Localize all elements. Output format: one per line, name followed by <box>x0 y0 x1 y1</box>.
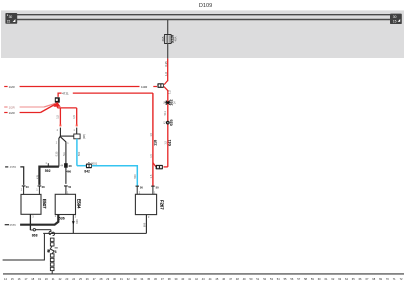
svg-text:69: 69 <box>379 277 382 281</box>
svg-text:1,5: 1,5 <box>72 115 76 119</box>
svg-text:64: 64 <box>345 277 348 281</box>
svg-text:0,35: 0,35 <box>55 151 58 156</box>
svg-text:2: 2 <box>21 188 23 192</box>
svg-text:29: 29 <box>106 277 109 281</box>
wire branch A black <box>59 128 61 137</box>
svg-text:56: 56 <box>290 277 293 281</box>
svg-text:47: 47 <box>229 277 232 281</box>
svg-text:0,35: 0,35 <box>164 61 168 67</box>
bus band <box>1 10 404 58</box>
svg-text:3: 3 <box>75 214 77 218</box>
wire stub3 <box>4 104 55 115</box>
svg-text:33: 33 <box>134 277 137 281</box>
svg-text:40: 40 <box>181 277 184 281</box>
svg-text:8: 8 <box>55 250 57 254</box>
svg-text:16: 16 <box>18 277 21 281</box>
wire cyan horizontal 2 <box>92 166 137 187</box>
svg-text:25: 25 <box>79 277 82 281</box>
svg-text:52: 52 <box>263 277 266 281</box>
wire junction line <box>43 232 146 234</box>
svg-text:40A: 40A <box>161 36 165 41</box>
svg-text:641: 641 <box>168 140 172 146</box>
svg-text:15: 15 <box>11 277 14 281</box>
svg-text:2: 2 <box>56 141 58 144</box>
svg-text:592: 592 <box>45 169 51 173</box>
svg-text:14: 14 <box>4 277 7 281</box>
svg-text:E594: E594 <box>77 199 82 209</box>
box E507 <box>21 194 47 214</box>
wire pin stubs into boxes <box>24 186 153 194</box>
svg-text:3: 3 <box>148 215 150 219</box>
svg-text:19: 19 <box>38 277 41 281</box>
svg-text:62: 62 <box>331 277 334 281</box>
svg-text:1I2R: 1I2R <box>9 111 15 115</box>
svg-text:24: 24 <box>72 277 75 281</box>
svg-text:1,5: 1,5 <box>163 140 167 144</box>
track numbers <box>4 277 403 281</box>
box E594 <box>55 194 81 214</box>
svg-text:50: 50 <box>250 277 253 281</box>
svg-text:511: 511 <box>163 111 167 116</box>
svg-text:48: 48 <box>236 277 239 281</box>
svg-text:28: 28 <box>100 277 103 281</box>
junction splice J <box>55 97 60 103</box>
svg-text:26: 26 <box>86 277 89 281</box>
svg-text:1,5: 1,5 <box>149 174 153 178</box>
svg-text:F267: F267 <box>160 200 165 210</box>
svg-text:72: 72 <box>400 277 403 281</box>
svg-text:(98): (98) <box>82 134 86 139</box>
svg-text:1,5: 1,5 <box>56 115 60 119</box>
svg-text:22: 22 <box>59 277 62 281</box>
wire bus 30 <box>17 14 390 16</box>
wire 4555 top <box>5 165 24 185</box>
svg-text:42: 42 <box>164 121 167 124</box>
wire red drop <box>167 59 169 82</box>
svg-text:59: 59 <box>311 277 314 281</box>
svg-text:30: 30 <box>9 15 13 19</box>
wire red left vertical <box>152 93 154 186</box>
svg-text:1I2R: 1I2R <box>141 85 148 89</box>
svg-text:15: 15 <box>7 20 11 24</box>
svg-text:50: 50 <box>68 185 71 189</box>
svg-text:2: 2 <box>55 215 57 218</box>
svg-text:65: 65 <box>352 277 355 281</box>
svg-text:28: 28 <box>42 185 45 189</box>
svg-text:66: 66 <box>359 277 362 281</box>
svg-text:4555: 4555 <box>10 223 17 227</box>
wire boxF bottom <box>142 215 150 234</box>
fuse S228 40A <box>161 35 178 44</box>
svg-text:49: 49 <box>243 277 246 281</box>
connector K2 <box>153 163 168 170</box>
svg-text:1,0: 1,0 <box>164 72 168 76</box>
svg-text:D109: D109 <box>199 3 212 9</box>
svg-text:23: 23 <box>65 277 68 281</box>
svg-text:478: 478 <box>36 174 39 179</box>
wire fork right <box>60 137 69 184</box>
svg-text:43: 43 <box>202 277 205 281</box>
svg-text:E507: E507 <box>42 199 47 209</box>
svg-text:57: 57 <box>297 277 300 281</box>
svg-text:4TJ1: 4TJ1 <box>62 92 69 96</box>
svg-text:30: 30 <box>393 15 397 19</box>
svg-text:50: 50 <box>140 185 143 189</box>
svg-text:1,5: 1,5 <box>167 90 171 94</box>
wire cyan vertical <box>77 139 81 166</box>
wire fuse to red <box>167 43 169 58</box>
node terminal box right <box>390 14 402 24</box>
wire fuse tap <box>167 20 169 35</box>
svg-text:1,5: 1,5 <box>149 132 153 136</box>
node separation point <box>49 231 55 235</box>
svg-text:1,5: 1,5 <box>149 154 153 158</box>
box F267 <box>135 194 164 214</box>
svg-text:36: 36 <box>154 277 157 281</box>
svg-text:1: 1 <box>67 142 69 145</box>
wire stub2 <box>4 103 56 109</box>
pin bar box2 <box>64 185 72 194</box>
svg-text:32: 32 <box>127 277 130 281</box>
wire red right vertical <box>167 90 169 167</box>
svg-text:35: 35 <box>147 277 150 281</box>
svg-text:63: 63 <box>338 277 341 281</box>
wire ground thick <box>5 215 65 227</box>
splice A <box>164 99 177 105</box>
svg-text:026: 026 <box>170 119 174 125</box>
node terminal box left <box>5 13 17 24</box>
svg-text:511: 511 <box>63 151 66 155</box>
svg-text:460: 460 <box>66 169 71 173</box>
svg-text:55: 55 <box>284 277 287 281</box>
wire cyan horizontal <box>77 165 86 167</box>
wire fork horizontal <box>60 135 73 137</box>
svg-text:3: 3 <box>32 215 34 219</box>
svg-text:118: 118 <box>154 140 158 146</box>
wire H2 red <box>58 90 153 97</box>
svg-text:39: 39 <box>175 277 178 281</box>
svg-text:500: 500 <box>77 151 81 156</box>
svg-text:51: 51 <box>256 277 259 281</box>
svg-text:18: 18 <box>31 277 34 281</box>
wire branch A red <box>56 108 62 132</box>
svg-text:44: 44 <box>60 165 63 168</box>
wire branch B black <box>76 128 78 135</box>
wire fan horizontal <box>57 107 76 109</box>
svg-text:0001: 0001 <box>91 161 98 165</box>
connector C2 B82 <box>84 161 97 173</box>
wire bus 15 <box>17 19 390 21</box>
svg-text:1: 1 <box>36 188 38 192</box>
svg-text:2: 2 <box>57 129 59 132</box>
svg-text:41: 41 <box>188 277 191 281</box>
svg-text:4555: 4555 <box>10 165 17 169</box>
splice B <box>164 119 174 125</box>
svg-text:45: 45 <box>215 277 218 281</box>
svg-text:649: 649 <box>75 219 79 224</box>
svg-text:842: 842 <box>84 170 90 174</box>
svg-text:68: 68 <box>372 277 375 281</box>
svg-text:699: 699 <box>142 222 146 227</box>
bottom rail <box>3 273 404 275</box>
svg-text:27: 27 <box>93 277 96 281</box>
connector K1 <box>157 81 167 91</box>
connector C99 <box>74 134 86 139</box>
svg-text:1: 1 <box>45 162 47 165</box>
svg-text:61: 61 <box>325 277 328 281</box>
svg-text:20: 20 <box>45 277 48 281</box>
svg-text:31: 31 <box>120 277 123 281</box>
svg-text:54: 54 <box>277 277 280 281</box>
svg-text:50: 50 <box>156 185 159 189</box>
svg-text:46: 46 <box>222 277 225 281</box>
svg-text:21: 21 <box>52 277 55 281</box>
svg-text:71: 71 <box>393 277 396 281</box>
svg-text:536: 536 <box>59 216 65 220</box>
svg-text:868: 868 <box>32 233 38 237</box>
svg-text:38: 38 <box>168 277 171 281</box>
svg-text:500: 500 <box>133 174 137 179</box>
svg-text:1I2R: 1I2R <box>9 85 15 89</box>
svg-text:1I2R: 1I2R <box>9 106 15 110</box>
svg-text:1: 1 <box>73 129 75 132</box>
wire left drop <box>3 234 45 260</box>
pin bars box1 <box>21 185 45 191</box>
wire bridge thick <box>36 162 59 185</box>
svg-text:24: 24 <box>173 101 176 104</box>
ground chain <box>47 238 58 274</box>
svg-text:42: 42 <box>195 277 198 281</box>
wire box2 right pin <box>72 214 79 233</box>
svg-text:67: 67 <box>366 277 369 281</box>
connector on branch wire <box>60 163 72 173</box>
svg-text:70: 70 <box>386 277 389 281</box>
svg-text:53: 53 <box>270 277 273 281</box>
wire box1 bottom <box>30 214 51 237</box>
svg-text:15: 15 <box>393 19 397 23</box>
svg-text:40: 40 <box>68 164 72 168</box>
wire branch B red <box>72 108 78 132</box>
svg-text:40: 40 <box>26 185 29 189</box>
svg-text:44: 44 <box>209 277 212 281</box>
svg-text:60: 60 <box>318 277 321 281</box>
svg-text:17: 17 <box>25 277 28 281</box>
node arrow into J <box>53 102 60 108</box>
wire H1 red <box>4 84 157 90</box>
pin bars boxF <box>136 185 160 194</box>
svg-text:58: 58 <box>304 277 307 281</box>
wire fork left <box>55 136 60 167</box>
svg-text:30: 30 <box>113 277 116 281</box>
svg-text:34: 34 <box>140 277 143 281</box>
svg-text:37: 37 <box>161 277 164 281</box>
svg-text:40A: 40A <box>173 36 177 41</box>
